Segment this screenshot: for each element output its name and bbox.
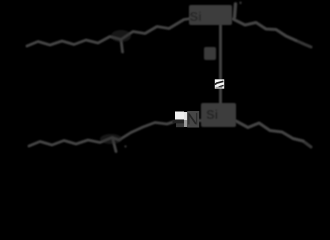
wire: top-right chain faint tail: [296, 41, 311, 48]
atom Si2: gray halo box: [201, 103, 236, 127]
node: soft cloud at top chain branch vertex: [111, 30, 131, 42]
wire: methyl stub up from Si1: [235, 4, 236, 17]
wire: bottom-right chain faint tail: [303, 141, 311, 147]
node: NH label cluster left of Si2: [173, 111, 200, 128]
wire: top-left alkyl chain: [27, 19, 191, 47]
node: faint dot near bottom stub: [124, 145, 126, 147]
node: soft cloud at bottom chain branch vertex: [100, 134, 122, 144]
svg-text:Si: Si: [206, 107, 218, 122]
light strip: [184, 112, 187, 120]
wire: vertical bond O label down to Si2: [219, 89, 222, 104]
svg-text:Si: Si: [190, 9, 202, 24]
wire: methyl stub on top chain: [121, 40, 123, 53]
wire: bond NH to Si2: [197, 119, 206, 122]
gray N block: [187, 111, 199, 128]
wire: top-right alkyl chain from Si1: [233, 19, 296, 41]
gray bar bottom: [176, 123, 184, 127]
white H box: [175, 112, 184, 120]
wire: vertical bond Si1 down to O label: [219, 25, 222, 79]
node: dot above methyl stub: [239, 2, 242, 5]
atom O: white label box on vertical bond: [215, 79, 225, 88]
atom Si1: gray halo box: [189, 5, 232, 25]
wire: bottom-left alkyl chain: [29, 122, 173, 146]
wire: bottom-right alkyl chain from Si2: [236, 121, 303, 141]
node: faint label blob left of vertical bond: [204, 47, 216, 60]
wire: methyl stub on bottom chain: [113, 140, 116, 152]
dark bar under H box: [173, 120, 185, 123]
